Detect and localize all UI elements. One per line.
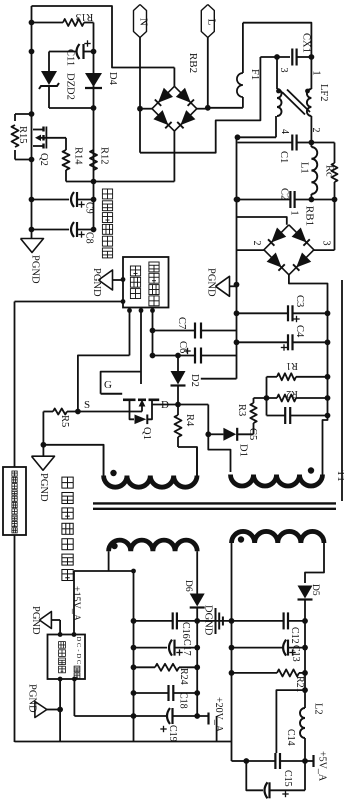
svg-text:C16: C16: [180, 622, 191, 639]
wire AC node to RB1 via C2: [238, 199, 291, 201]
wire R4 to primary right lead: [178, 447, 197, 476]
wire DC rail to snubber winding: [323, 416, 328, 475]
wire controller pins down: [129, 308, 131, 356]
svg-text:R24: R24: [178, 668, 189, 685]
svg-text:R13: R13: [76, 11, 94, 22]
svg-text:C15: C15: [282, 770, 293, 787]
capacitor C7: [153, 330, 196, 332]
diode D6: [190, 594, 205, 607]
svg-text:R3: R3: [236, 404, 247, 416]
svg-text:G: G: [104, 379, 112, 391]
wire S sense to controller pin: [78, 355, 130, 411]
capacitor C11: [49, 51, 76, 53]
node +20V_A terminal: [207, 713, 209, 725]
svg-text:C13: C13: [290, 645, 301, 662]
capacitor C9: [32, 199, 70, 201]
wire RB1 pin2: [237, 249, 264, 251]
svg-text:C17: C17: [181, 639, 192, 656]
svg-text:PGND: PGND: [30, 606, 41, 635]
capacitor C6: [153, 355, 196, 357]
node DGND earth symbol: [197, 620, 231, 622]
svg-text:Rc: Rc: [324, 165, 335, 177]
capacitor C14: [232, 760, 247, 762]
wire RB1 bottom to DC+ rail: [289, 275, 328, 416]
resistor R4: [177, 405, 179, 416]
wire DGND rail down x231.5: [231, 621, 233, 761]
wire N path to LF2 input: [140, 57, 260, 153]
capacitor C8: [32, 229, 70, 231]
transistor Q1 MOSFET: [101, 393, 123, 395]
wire feedback to controller: [15, 301, 124, 303]
wire gate route from controller: [101, 372, 141, 394]
resistor R15 with loop: [15, 113, 32, 115]
svg-text:-: -: [75, 649, 82, 651]
svg-text:R2: R2: [286, 388, 298, 399]
svg-text:C9: C9: [84, 202, 95, 214]
wire Q1 source stub and S wire: [129, 401, 131, 412]
diode D4: [85, 73, 102, 87]
wire N line: [139, 38, 141, 153]
label switching transformer text: [62, 477, 73, 488]
wire N to RB2 left corner: [140, 108, 152, 110]
svg-text:RB2: RB2: [187, 53, 199, 73]
wire +15V into DC-DC: [73, 571, 75, 635]
wire chassis bottom: [15, 741, 232, 743]
capacitor C4: [237, 341, 289, 343]
wire RB2 right corner to L junction: [197, 108, 208, 110]
capacitor C18: [134, 692, 169, 694]
wire L line: [207, 38, 209, 108]
resistor R12: [90, 150, 97, 170]
op-amp feedback sampling circuit box: [3, 467, 26, 535]
svg-text:R12: R12: [99, 147, 110, 165]
wire Q1 drain: [151, 401, 153, 405]
svg-text:Q1: Q1: [141, 427, 152, 440]
svg-text:C4: C4: [294, 325, 305, 338]
wire +15V branch: [74, 570, 134, 572]
svg-text:+15V_A: +15V_A: [71, 586, 82, 622]
svg-text:C8: C8: [84, 232, 95, 244]
svg-text:D: D: [161, 399, 169, 411]
svg-text:DGND: DGND: [203, 605, 214, 636]
svg-text:S: S: [84, 399, 90, 411]
wire riser below +20V terminal: [216, 716, 218, 742]
svg-text:+20V_A: +20V_A: [213, 697, 224, 733]
svg-text:C: C: [75, 660, 82, 664]
diode D1: [208, 433, 223, 435]
resistor R2: [254, 397, 278, 399]
ground PGND mid right: [216, 276, 230, 296]
capacitor C15: [246, 761, 263, 790]
transformer T1 secondary winding B: [232, 531, 325, 543]
inductor LF2 common-mode choke: [276, 57, 278, 89]
transistor Q2 MOSFET: [33, 129, 44, 131]
wire D1 anode to snubber winding: [207, 405, 209, 435]
wire top rail from left block to N-line corner: [32, 6, 175, 68]
capacitor C12: [232, 620, 284, 622]
svg-text:C3: C3: [294, 295, 305, 307]
svg-text:R4: R4: [184, 414, 195, 427]
svg-text:PGND: PGND: [38, 473, 49, 502]
svg-text:3: 3: [321, 241, 332, 246]
svg-text:R5: R5: [59, 415, 70, 427]
wire chassis right border: [341, 280, 343, 501]
svg-text:C19: C19: [167, 725, 178, 742]
wire RB1 pin1 riser: [237, 217, 287, 225]
svg-text:L: L: [205, 19, 217, 26]
wire secondary B right lead to D5: [305, 543, 324, 583]
svg-text:D2: D2: [189, 374, 200, 387]
wire right AC branch down to RB1 pin3: [334, 200, 336, 251]
svg-text:N: N: [138, 18, 150, 26]
resistor R3: [253, 398, 255, 403]
svg-text:D6: D6: [183, 580, 193, 592]
transformer T1 snubber winding: [231, 475, 323, 487]
ground PGND: [21, 239, 44, 253]
svg-text:DZD2: DZD2: [65, 73, 76, 100]
wire left AC vertical x236.5: [236, 137, 238, 378]
svg-text:C6: C6: [177, 341, 188, 353]
svg-text:R14: R14: [73, 147, 84, 165]
node dots on left rail: [29, 20, 35, 26]
ground PGND at controller left: [99, 270, 113, 290]
capacitor C3: [237, 312, 289, 314]
wire x236.5 jog at bottom: [201, 378, 237, 380]
wire to T1 primary left: [43, 445, 103, 476]
svg-text:C2: C2: [279, 188, 290, 200]
transformer T1 primary winding: [104, 476, 197, 488]
Q1 body diode: [130, 412, 135, 420]
ground PGND below R5: [32, 456, 55, 470]
bridge rectifier RB2: [173, 68, 175, 87]
wire F1 top to LF2 pin1 rail: [243, 23, 312, 57]
wire R1 left leg: [266, 377, 268, 416]
wire feedback riser x14.5: [14, 302, 16, 468]
svg-text:PGND: PGND: [91, 268, 102, 297]
wire RB2 minus output to R14/R12 node: [66, 181, 94, 183]
svg-text:C: C: [75, 643, 82, 647]
node +5V_A terminal: [305, 760, 314, 762]
wire R5 to PGND node: [42, 412, 44, 457]
capacitor CX1: [291, 49, 293, 66]
wire LF2 pin2 down: [310, 116, 312, 143]
svg-text:PGND: PGND: [206, 268, 217, 297]
resistor R21: [232, 672, 278, 674]
bridge rectifier RB1: [264, 225, 314, 275]
wire DC-DC bottom pins: [59, 679, 61, 742]
node L flag: [201, 5, 214, 38]
svg-text:C11: C11: [65, 49, 76, 66]
capacitor C16: [134, 620, 173, 622]
svg-text:R1: R1: [286, 360, 298, 371]
svg-text:1: 1: [311, 71, 322, 76]
inductor L2: [300, 708, 305, 738]
capacitor C19: [74, 715, 167, 717]
wire right rail x93.5 (D4 branch): [93, 23, 95, 230]
zener diode DZD2: [48, 52, 50, 72]
wire secondary B left lead down: [231, 543, 233, 621]
resistor R24: [134, 666, 156, 668]
svg-text:1: 1: [289, 211, 300, 216]
transformer core: [93, 502, 336, 504]
Q1 bulk arrow: [141, 404, 143, 412]
wire LF2 pin4 to left vertical: [275, 116, 277, 137]
resistor R5: [67, 411, 78, 413]
svg-text:R15: R15: [17, 126, 28, 144]
transformer T1 secondary winding A: [109, 540, 198, 551]
ground PGND at DC-DC input: [39, 612, 51, 629]
svg-text:CX1: CX1: [301, 33, 312, 53]
svg-text:D4: D4: [107, 72, 118, 86]
op-amp DC-DC module box: [48, 635, 86, 680]
svg-text:2: 2: [251, 241, 262, 246]
svg-text:4: 4: [279, 129, 290, 134]
svg-text:RB1: RB1: [304, 206, 316, 226]
wire secondary A left lead: [108, 551, 110, 571]
svg-text:C18: C18: [178, 692, 189, 709]
svg-text:C7: C7: [176, 317, 187, 329]
wire CX1 branch: [260, 56, 290, 58]
op-amp U1 switching power controller box: [123, 257, 169, 308]
capacitor C1: [238, 142, 293, 144]
wire RB2 bottom corner down to y181.5: [173, 131, 175, 181]
svg-text:L2: L2: [313, 703, 324, 715]
svg-text:D: D: [75, 637, 82, 642]
diode D2: [177, 356, 179, 372]
node N flag: [134, 5, 147, 38]
resistor R1: [267, 376, 278, 378]
capacitor C13: [232, 647, 284, 649]
resistor R13: [32, 22, 64, 24]
fuse F1: [242, 97, 244, 108]
svg-text:C14: C14: [285, 729, 296, 746]
svg-text:D5: D5: [310, 584, 320, 596]
svg-text:PGND: PGND: [30, 255, 41, 284]
wire left rail x31.5: [31, 6, 33, 239]
capacitor C2: [289, 191, 291, 208]
wire secondary A rail x133.5: [133, 571, 135, 742]
wire L to fuse F1: [208, 107, 243, 109]
resistor R14: [65, 138, 67, 150]
svg-text:C12: C12: [289, 627, 300, 644]
resistor Rc: [311, 142, 334, 144]
wire secondary A right lead / D6 rail x197.2: [196, 551, 198, 594]
ground PGND at DC-DC output: [35, 702, 47, 718]
svg-text:+5V_A: +5V_A: [317, 751, 328, 782]
svg-text:C1: C1: [278, 151, 289, 163]
svg-text:PGND: PGND: [27, 684, 38, 713]
wire link to C14 top: [276, 690, 305, 753]
svg-text:3: 3: [278, 68, 289, 73]
svg-text:F1: F1: [249, 69, 260, 80]
svg-text:LF2: LF2: [318, 84, 329, 102]
capacitor C17: [134, 647, 168, 649]
capacitor C5: [267, 415, 286, 417]
svg-text:L1: L1: [299, 162, 310, 174]
inductor L1: [311, 147, 317, 194]
diode D5: [298, 586, 313, 599]
svg-text:Q2: Q2: [38, 153, 49, 166]
label motor bus voltage text: [102, 189, 112, 199]
svg-text:D: D: [75, 654, 82, 659]
svg-text:D1: D1: [238, 444, 249, 457]
